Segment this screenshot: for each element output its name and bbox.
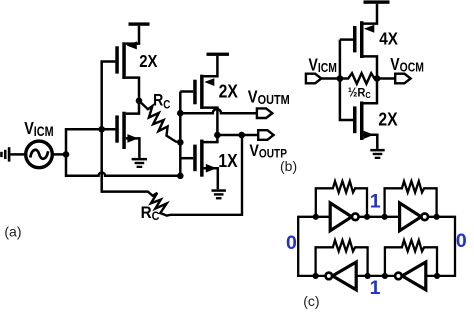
svg-text:2X: 2X bbox=[139, 52, 157, 71]
transistor M1 PMOS 2X (stage1 top) bbox=[115, 41, 139, 100]
node gate-VOUTM junction bbox=[177, 110, 184, 117]
node B stage1 gate junction bbox=[98, 126, 105, 133]
wire ground to source bbox=[10, 153, 26, 156]
node gate-wire left bbox=[337, 75, 344, 82]
transistor M5 PMOS 4X bbox=[340, 21, 377, 78]
ground GND2 (stage2) bbox=[212, 189, 226, 199]
wire gate line part b bbox=[340, 40, 353, 120]
node stage2 output bbox=[214, 132, 221, 139]
ground GND0 (sideways, left of source) bbox=[0, 147, 10, 161]
svg-text:(a): (a) bbox=[4, 223, 21, 239]
resistor R2 feedback loop (top-right) bbox=[385, 181, 437, 217]
node U1 output bbox=[364, 214, 370, 220]
svg-text:VOCM: VOCM bbox=[390, 55, 424, 74]
svg-text:1: 1 bbox=[370, 190, 381, 212]
svg-text:VOUTM: VOUTM bbox=[248, 87, 290, 107]
node U1 input bbox=[313, 214, 319, 220]
node source output bbox=[63, 151, 70, 158]
wire node up to stage1 gates bbox=[66, 129, 115, 154]
svg-text:(b): (b) bbox=[280, 158, 297, 174]
supply VDD2 bbox=[204, 53, 229, 77]
inverter U1 (top-left) bbox=[330, 203, 358, 231]
port VOCM bbox=[395, 74, 410, 84]
transistor M6 NMOS 2X (part b) bbox=[353, 102, 377, 149]
svg-text:(c): (c) bbox=[303, 293, 319, 309]
svg-text:0: 0 bbox=[286, 232, 297, 254]
inverter U2 (top-right) bbox=[400, 203, 428, 231]
svg-text:½RC: ½RC bbox=[348, 85, 371, 100]
wire source to node bbox=[52, 153, 66, 156]
ground GND1 (stage1) bbox=[132, 158, 147, 168]
node U3 output bbox=[313, 273, 319, 279]
inverter U4 (bottom-right) bbox=[395, 262, 426, 290]
node U4 input bbox=[434, 273, 440, 279]
supply VDD1 bbox=[126, 22, 150, 43]
resistor R4 feedback loop (bottom-right) bbox=[385, 240, 437, 276]
resistor R1 feedback loop (top-left) bbox=[316, 181, 367, 217]
inverter U3 (bottom-left) bbox=[326, 262, 357, 290]
resistor RC2 (bottom squiggle) bbox=[148, 135, 242, 216]
svg-text:2X: 2X bbox=[219, 80, 239, 102]
port VOUTP bbox=[258, 130, 273, 140]
node U2 output bbox=[434, 214, 440, 220]
wire VOUTM line (hops over stage2 output vertical) bbox=[180, 109, 257, 113]
ground GND3 (part b) bbox=[370, 149, 384, 159]
node RC1 to gate line bbox=[177, 139, 184, 146]
wire latch ring (part c) bbox=[298, 217, 455, 276]
svg-text:4X: 4X bbox=[379, 28, 398, 48]
node output-wire right bbox=[374, 75, 381, 82]
voltage source VICM (sine) bbox=[26, 141, 53, 168]
wire stage2 output to VOUTP bbox=[217, 134, 258, 137]
supply VDD3 (part b) bbox=[364, 0, 390, 23]
node gate line bottom bbox=[177, 173, 184, 180]
resistor R3 feedback loop (bottom-left) bbox=[316, 240, 368, 276]
node U3 input bbox=[365, 273, 371, 279]
svg-text:2X: 2X bbox=[378, 108, 398, 130]
node A stage1 output bbox=[136, 98, 143, 105]
svg-text:VICM: VICM bbox=[309, 56, 338, 75]
wire node down to stage2 gate line (hops over vertical) bbox=[66, 154, 180, 175]
wire resistor to VOCM port bbox=[374, 77, 396, 80]
port VOUTM bbox=[257, 108, 272, 118]
svg-text:1X: 1X bbox=[218, 150, 238, 172]
wire stage2 gate vertical bbox=[179, 92, 182, 176]
port VICM (part b) bbox=[306, 74, 321, 84]
svg-text:0: 0 bbox=[456, 230, 467, 252]
svg-text:1: 1 bbox=[370, 277, 381, 299]
svg-text:RC: RC bbox=[153, 92, 170, 112]
transistor M4 NMOS 1X (stage2 bottom) bbox=[180, 135, 218, 189]
node U4 output bbox=[382, 273, 388, 279]
transistor M2 NMOS (stage1 bottom) bbox=[115, 101, 139, 158]
wire output node down to M6 drain bbox=[364, 79, 378, 104]
resistor half-RC bbox=[346, 73, 374, 84]
wire stage1 gate vertical down through RC2 to VOUTP bbox=[102, 62, 149, 192]
resistor RC1 (top squiggle) bbox=[139, 101, 180, 143]
svg-text:VICM: VICM bbox=[24, 119, 53, 140]
wire VICM port to resistor bbox=[321, 77, 346, 80]
node U2 input bbox=[382, 214, 388, 220]
transistor M3 PMOS 2X (stage2 top) bbox=[180, 75, 217, 135]
node VOUTP junction bbox=[238, 132, 245, 139]
